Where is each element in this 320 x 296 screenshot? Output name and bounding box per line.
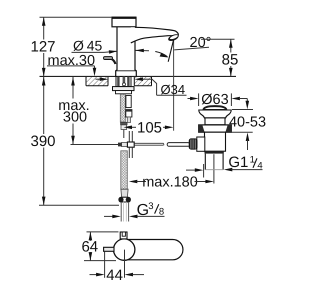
- svg-text:3: 3: [148, 201, 153, 212]
- dimension Ø63: [188, 92, 248, 108]
- body: [205, 132, 226, 151]
- dimension Ø45: [72, 38, 150, 54]
- svg-text:44: 44: [106, 267, 123, 284]
- supply hose braided lower: [121, 151, 128, 189]
- svg-text:Ø34: Ø34: [161, 82, 186, 97]
- dimension 85: [201, 39, 238, 76]
- dimension Ø34: [96, 77, 187, 97]
- dimension 44: [90, 250, 145, 284]
- cross fitting: [118, 142, 134, 147]
- label 20 deg: [174, 35, 211, 51]
- faucet cap: [112, 17, 136, 27]
- G3/8 connector nut: [119, 197, 130, 202]
- svg-text:max.180: max.180: [142, 174, 198, 190]
- flange: [199, 110, 231, 118]
- drain pop-up waste assembly: [189, 106, 231, 170]
- connection pipe: [121, 202, 128, 222]
- svg-text:4: 4: [257, 161, 262, 172]
- svg-text:G1: G1: [228, 154, 248, 171]
- dimension max.300: [58, 77, 89, 144]
- bottom view: body circle: [114, 239, 135, 260]
- tube from cross to right (telescoping): [134, 143, 190, 147]
- valve adapter: [197, 137, 205, 151]
- clamp nut band: [199, 125, 232, 132]
- lever handle: [104, 57, 116, 64]
- mounting nut: [116, 91, 132, 94]
- bottom view: top knob: [120, 232, 127, 239]
- hose crimp end: [121, 189, 128, 197]
- angle 20 deg : tilted line: [168, 40, 173, 62]
- svg-text:40-53: 40-53: [229, 115, 266, 131]
- threaded shank in hole: [116, 77, 131, 87]
- svg-text:20°: 20°: [190, 35, 212, 51]
- svg-text:85: 85: [222, 51, 239, 68]
- counter top reference line: [40, 75, 237, 77]
- dimension max.180: [129, 154, 214, 190]
- svg-text:G: G: [137, 202, 149, 219]
- svg-text:8: 8: [159, 206, 164, 217]
- counter slab hatched section: [86, 76, 152, 86]
- svg-text:Ø 45: Ø 45: [73, 38, 102, 54]
- dimension 64: [81, 232, 118, 261]
- dimension 127: [30, 17, 112, 76]
- dimension 390: [30, 77, 119, 205]
- knurled valve knob: [189, 139, 197, 149]
- shoulder dark band: [205, 151, 224, 153]
- hose fitting: [121, 122, 128, 129]
- bottom view: lever: [104, 247, 114, 251]
- svg-text:390: 390: [30, 133, 55, 150]
- supply hose braided upper: [120, 94, 125, 122]
- dimension max.30: [47, 53, 96, 76]
- dimension 40-53: [229, 99, 266, 151]
- dimension 105: [124, 119, 174, 138]
- rod lower tube: [127, 117, 130, 122]
- svg-text:300: 300: [63, 110, 87, 126]
- faucet body: [116, 27, 137, 77]
- svg-text:1: 1: [250, 154, 255, 165]
- rod joint piece: [126, 110, 132, 117]
- dimension G1 1/4: [224, 154, 263, 172]
- horizontal rod to valve (left thin): [71, 144, 119, 146]
- angle 20 deg : swing arc: [155, 52, 167, 57]
- svg-text:64: 64: [81, 238, 98, 255]
- actuation rod upper: [126, 96, 131, 108]
- mounting washer: [113, 87, 135, 91]
- valve actuation tube lower: [129, 147, 132, 158]
- neck: [205, 118, 225, 125]
- plug dome: [203, 106, 226, 110]
- angle 20 deg : plumb line: [173, 40, 175, 131]
- tailpiece: [205, 154, 223, 170]
- dimension G1 1/4 left arrow and extension: [186, 164, 204, 178]
- dimension G3/8: [104, 201, 165, 219]
- svg-text:105: 105: [137, 119, 162, 136]
- svg-text:Ø63: Ø63: [201, 92, 228, 108]
- bottom view: spout stadium: [127, 240, 183, 260]
- valve actuation tube upper: [129, 131, 132, 142]
- spout: [131, 27, 180, 43]
